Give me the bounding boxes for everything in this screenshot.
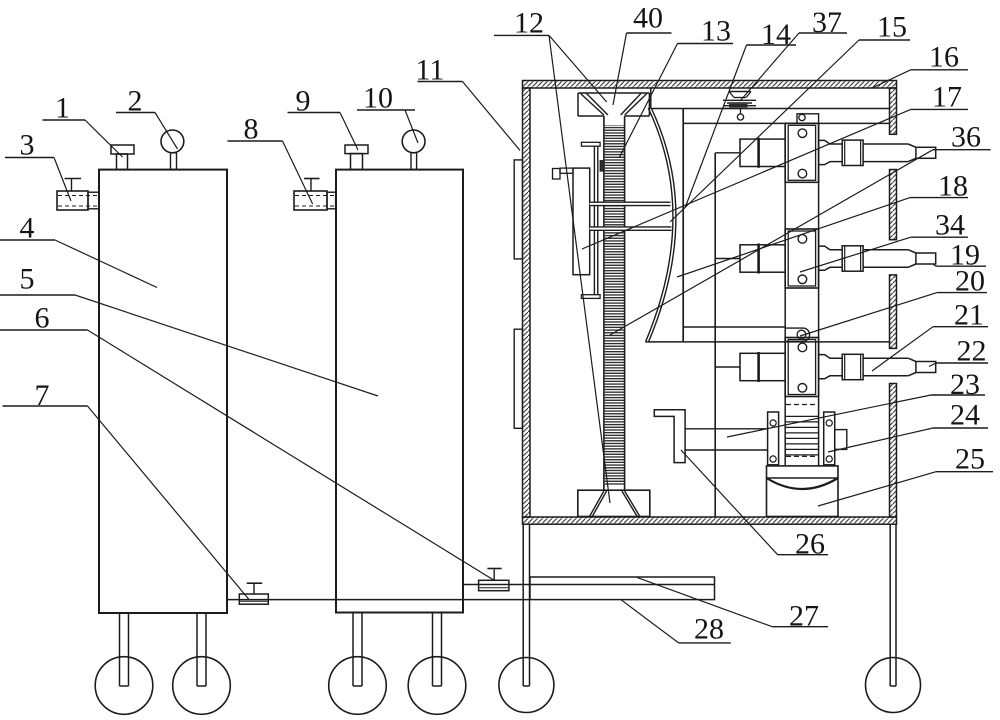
svg-text:24: 24 [950, 399, 980, 432]
svg-text:28: 28 [694, 613, 724, 646]
svg-text:3: 3 [20, 129, 35, 162]
tank wheel leg at x=357.5 [352, 613, 354, 686]
guide rail web [593, 146, 595, 295]
guide rail cap bottom [581, 295, 600, 299]
piston dashed line [786, 404, 818, 406]
spring stack 23 [786, 415, 818, 417]
valve (pointed by 6) [479, 580, 509, 590]
tank 4 body [99, 170, 227, 613]
tank wheel at x=124 [95, 657, 153, 715]
small block on rack [600, 161, 604, 171]
lower cross bar [590, 227, 672, 230]
spring assembly 37 [729, 91, 751, 93]
curved deflector plate 15 [646, 108, 673, 342]
machine left leg [522, 524, 524, 686]
spray nozzle assembly at y=258.5 [715, 258, 740, 260]
filter plate 28 [463, 584, 715, 586]
crank handle 26 [654, 410, 685, 463]
svg-text:17: 17 [932, 81, 962, 114]
upper cross bar [590, 202, 671, 205]
inner box left edge [682, 109, 684, 342]
inner vertical support [714, 153, 716, 517]
outer guide plate lower [514, 329, 522, 428]
svg-text:27: 27 [789, 600, 819, 633]
valve cap 9 on tank 5 [345, 145, 368, 154]
enclosure right wall segment 3 [890, 275, 897, 349]
enclosure right wall segment 4 [890, 384, 897, 518]
svg-text:12: 12 [514, 7, 544, 40]
valve cap 1 on tank 4 [111, 145, 134, 154]
svg-text:14: 14 [761, 18, 791, 51]
machine right leg [889, 524, 891, 686]
tank 5 body [336, 170, 463, 613]
handle rails [685, 428, 768, 430]
side valve 3 [57, 191, 88, 210]
tall slide plate (17) [573, 168, 590, 275]
enclosure bottom wall [523, 517, 897, 524]
svg-text:36: 36 [951, 121, 981, 154]
machine right wheel [866, 658, 921, 713]
pipe between tanks [227, 599, 530, 601]
clamp right extension [835, 430, 847, 450]
side valve 8 [294, 191, 327, 210]
toothed rack column 13 [605, 125, 624, 485]
enclosure top wall (16) [523, 81, 897, 89]
enclosure left wall (11) [523, 88, 531, 517]
tank wheel leg at x=201.5 [196, 613, 198, 686]
svg-text:23: 23 [950, 368, 980, 401]
funnel cone (12 upper) [581, 94, 604, 116]
svg-text:5: 5 [20, 263, 35, 296]
tank wheel leg at x=124 [119, 613, 121, 686]
nozzle holder bar [784, 123, 786, 466]
svg-text:7: 7 [35, 379, 50, 412]
enclosure right wall segment 1 [890, 88, 897, 134]
discharge foot funnel (12 lower) [578, 490, 650, 516]
spray nozzle assembly at y=367 [715, 366, 740, 368]
inner box bottom [683, 326, 785, 328]
svg-text:26: 26 [795, 528, 825, 561]
tank wheel leg at x=437 [432, 613, 434, 686]
collection box 25 [767, 466, 839, 517]
svg-text:16: 16 [929, 41, 959, 74]
tank wheel at x=357.5 [329, 657, 387, 715]
bottom filter box 27 [530, 577, 715, 600]
feed funnel housing (40) [578, 92, 649, 94]
enclosure right wall segment 2 [890, 170, 897, 240]
tank wheel at x=201.5 [173, 657, 231, 715]
pressure gauge 10 [402, 130, 425, 153]
clamp left bracket 24 [768, 412, 779, 465]
svg-text:37: 37 [812, 6, 842, 39]
inner frame top line [651, 108, 890, 110]
outer guide plate upper (11) [514, 160, 522, 259]
svg-text:13: 13 [701, 15, 731, 48]
spray nozzle assembly at y=152.8 [715, 152, 740, 154]
inner box top (18) [683, 122, 889, 124]
inner frame lower shelf [646, 341, 890, 343]
svg-text:15: 15 [877, 11, 907, 44]
svg-text:40: 40 [633, 2, 663, 35]
bolt lug above nozzle 3 (20) [785, 328, 809, 341]
guide rail cap top [581, 142, 600, 146]
pressure gauge 2 [161, 130, 184, 153]
clamp right bracket [824, 412, 835, 465]
support arm to wall [553, 169, 561, 180]
svg-text:25: 25 [955, 443, 985, 476]
drain valve (pointed by 7) [239, 594, 268, 604]
tank wheel at x=437 [408, 657, 466, 715]
machine left wheel [499, 658, 554, 713]
